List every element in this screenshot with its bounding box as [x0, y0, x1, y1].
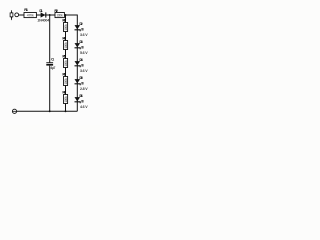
svg-text:100k: 100k: [64, 96, 68, 103]
svg-text:D1: D1: [39, 9, 42, 13]
svg-text:1W: 1W: [81, 63, 84, 67]
svg-text:4.6 V: 4.6 V: [80, 105, 88, 109]
svg-text:1W: 1W: [81, 27, 84, 31]
svg-text:R7: R7: [62, 90, 65, 94]
svg-text:470k: 470k: [27, 14, 34, 18]
svg-text:C1: C1: [51, 57, 54, 61]
svg-text:100k: 100k: [64, 42, 68, 49]
svg-text:R5: R5: [62, 54, 65, 58]
svg-text:R1: R1: [24, 8, 28, 12]
svg-text:R6: R6: [62, 72, 65, 76]
svg-text:1W: 1W: [81, 99, 84, 103]
svg-text:220k: 220k: [57, 14, 63, 18]
svg-text:5.6 V: 5.6 V: [80, 51, 88, 55]
svg-text:D3: D3: [79, 40, 82, 44]
svg-text:R3: R3: [62, 18, 65, 22]
svg-text:3.6 V: 3.6 V: [80, 69, 88, 73]
svg-text:2.8 V: 2.8 V: [80, 87, 88, 91]
svg-text:100k: 100k: [64, 60, 68, 67]
svg-text:R2: R2: [54, 9, 58, 13]
svg-text:100k: 100k: [64, 78, 68, 85]
svg-text:100k: 100k: [64, 24, 68, 31]
svg-text:D2: D2: [79, 22, 82, 26]
svg-text:3.6 V: 3.6 V: [80, 33, 88, 37]
svg-text:1N4004: 1N4004: [37, 19, 50, 23]
svg-text:D5: D5: [79, 76, 82, 80]
svg-text:1W: 1W: [81, 45, 84, 49]
svg-text:1W: 1W: [81, 81, 84, 85]
svg-text:D6: D6: [79, 94, 82, 98]
svg-text:4µ7: 4µ7: [50, 66, 55, 70]
